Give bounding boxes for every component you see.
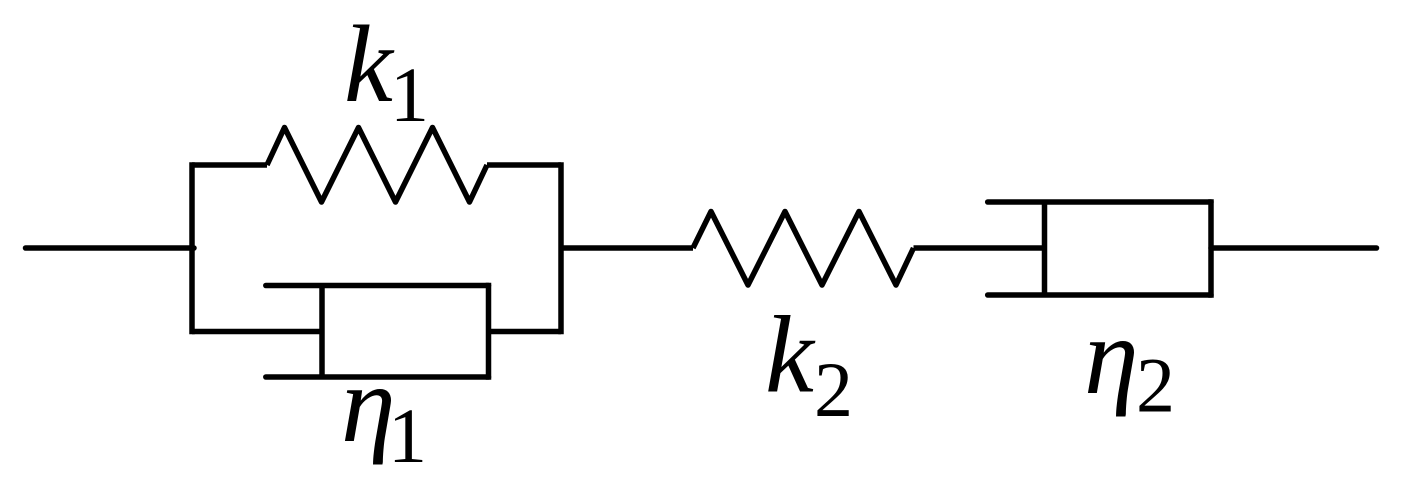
dashpot eta1 piston plate: [319, 286, 325, 378]
spring k1 (zigzag): [267, 128, 487, 203]
node B: right bar of Kelvin-Voigt parallel block: [558, 162, 564, 334]
dashpot eta1 cylinder bottom wall: [266, 374, 489, 380]
dashpot eta2 cylinder top wall: [988, 199, 1211, 205]
wire top-left rail: [192, 162, 267, 168]
dashpot eta2 cylinder right end: [1208, 199, 1214, 298]
svg-text:k: k: [765, 294, 816, 416]
dashpot eta1 cylinder top wall: [266, 283, 489, 289]
svg-text:η: η: [1084, 295, 1139, 417]
svg-text:2: 2: [1136, 342, 1175, 429]
wire right lead: [1211, 245, 1377, 251]
label eta2: [1084, 295, 1175, 429]
label k1: [344, 3, 429, 138]
wire top-right rail: [487, 162, 561, 168]
spring k2 (zigzag): [693, 212, 914, 286]
dashpot eta1 cylinder right end: [486, 283, 492, 380]
label k2: [765, 294, 853, 434]
wire bottom-left rail / piston rod of dashpot eta1: [192, 329, 322, 335]
wire left lead: [26, 245, 195, 251]
dashpot eta2 cylinder bottom wall: [988, 292, 1211, 298]
label eta1: [341, 343, 427, 479]
wire from spring k2 to dashpot eta2 piston: [914, 245, 1045, 251]
node A: left bar of Kelvin-Voigt parallel block: [189, 162, 195, 334]
wire middle from right bar to spring k2: [561, 245, 693, 251]
svg-text:k: k: [344, 3, 395, 125]
svg-text:1: 1: [390, 51, 429, 138]
dashpot eta2 piston plate: [1042, 202, 1048, 295]
svg-text:2: 2: [814, 346, 853, 433]
svg-text:1: 1: [388, 392, 427, 479]
wire bottom-right rail from dashpot eta1 to right bar: [489, 329, 562, 335]
